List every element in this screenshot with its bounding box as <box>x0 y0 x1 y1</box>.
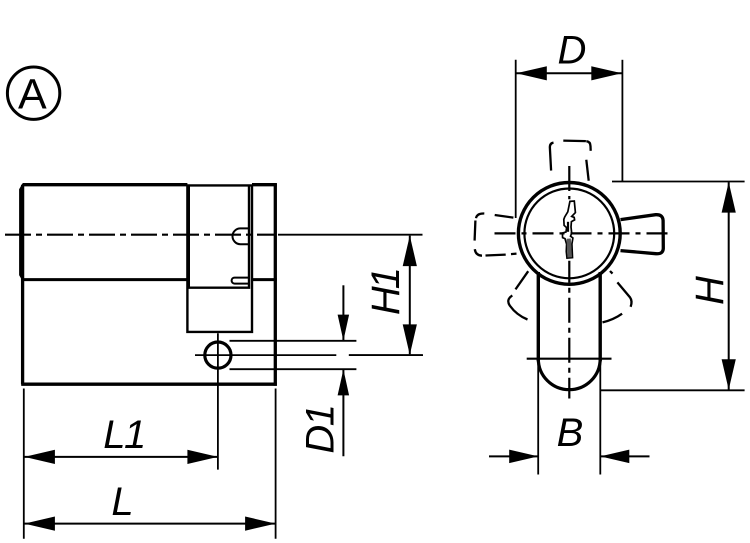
H extension line top <box>612 181 745 183</box>
side view: barrel-web junction line <box>22 278 277 281</box>
dimension B <box>489 450 650 464</box>
front view: key profile outline <box>562 201 575 258</box>
svg-text:H1: H1 <box>364 270 408 315</box>
H1 lower extension line <box>349 354 423 356</box>
svg-text:D1: D1 <box>299 406 343 454</box>
D extension line left <box>515 60 517 218</box>
view label circle A <box>7 67 59 119</box>
side view: lower pin chamber slot <box>232 278 249 284</box>
dimension H <box>722 182 736 390</box>
front view: vertical centerline <box>568 166 570 399</box>
B extension line left <box>537 362 539 475</box>
side view: upper pin chamber slot <box>233 228 250 244</box>
H extension line bottom <box>601 389 745 391</box>
svg-text:B: B <box>557 411 584 455</box>
dimension H1 <box>403 236 417 355</box>
key lower shank (grey) <box>567 239 572 258</box>
phantom cam position: left <box>475 213 517 255</box>
side view: pin housing <box>187 185 252 332</box>
svg-text:H: H <box>688 276 732 305</box>
extension line hole bottom tangent <box>230 368 357 370</box>
front view: face chamfer inner circle <box>524 189 614 279</box>
phantom cam position: bottom-left <box>508 271 528 319</box>
screw hole vertical centerline / L1 extension <box>217 333 219 469</box>
H1 extension line from axis <box>278 234 423 236</box>
front view: cylinder face outer circle <box>518 183 620 285</box>
locking cam, engaged position <box>621 215 664 254</box>
front view: web right edge <box>599 272 602 361</box>
front view: horizontal centerline <box>495 232 671 234</box>
L1/L left extension line <box>23 389 25 539</box>
L right extension line <box>275 389 277 539</box>
svg-text:D: D <box>558 28 587 72</box>
D extension line right <box>621 60 623 182</box>
side view: mounting screw hole <box>205 342 231 368</box>
side view: cylinder body outline <box>21 183 277 386</box>
B extension line right <box>599 362 601 475</box>
phantom cam position: top <box>550 141 591 181</box>
phantom cam position: bottom-right <box>603 271 632 322</box>
front view: web rounded bottom <box>538 359 600 390</box>
extension line hole top tangent <box>230 340 357 342</box>
dimension L <box>24 517 275 531</box>
key bitting dark bar <box>567 222 569 232</box>
svg-text:A: A <box>18 70 47 118</box>
svg-text:L1: L1 <box>103 413 145 457</box>
dimension L1 <box>24 450 218 464</box>
side view: barrel front face strip <box>20 184 23 280</box>
side view: axis centerline <box>5 234 277 236</box>
dimension D <box>516 66 622 80</box>
front view: web chamfer line <box>527 358 612 360</box>
screw hole horizontal centerline <box>195 354 423 356</box>
dimension D1 <box>338 285 350 456</box>
svg-text:L: L <box>111 480 133 524</box>
front view: web left edge <box>537 272 540 361</box>
side view: plug chamber <box>189 186 249 288</box>
